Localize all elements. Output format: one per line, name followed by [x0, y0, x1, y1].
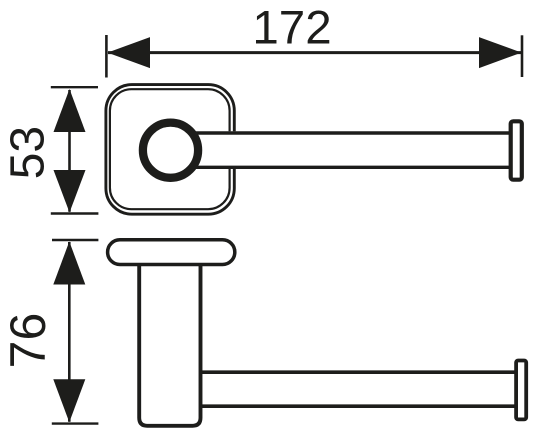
side view roll bar top edge	[201, 370, 517, 374]
front view roll bar top edge	[190, 131, 509, 134]
side view wall plate pill	[108, 240, 235, 265]
dimension 172 right arrowhead	[479, 37, 522, 68]
side view bar end cap	[516, 361, 526, 420]
dimension 172 left extension tick	[105, 35, 108, 78]
dimension 172 text	[252, 1, 331, 54]
side view roll bar bottom edge	[201, 404, 517, 408]
front view roll bar bottom edge	[190, 166, 509, 169]
dimension 53 line	[68, 90, 71, 212]
dimension 53 bottom extension tick	[51, 212, 99, 214]
front view roll bar body mask	[190, 131, 509, 169]
svg-text:53: 53	[2, 126, 55, 179]
front view wall plate outer outline	[106, 85, 234, 215]
dimension 76 top extension tick	[52, 239, 98, 241]
dimension 172 right extension tick	[521, 35, 524, 77]
svg-text:76: 76	[0, 313, 56, 369]
dimension 172 left arrowhead	[108, 37, 151, 68]
dimension 76 bottom extension tick	[52, 422, 99, 424]
dimension 53 top extension tick	[51, 86, 98, 88]
dimension 53 up arrowhead	[54, 89, 86, 132]
dimension 53 text	[2, 126, 55, 179]
front view post boss circle	[143, 123, 198, 178]
dimension 76 line	[68, 242, 71, 422]
front view bar end cap	[511, 121, 522, 179]
front view wall plate inner outline	[110, 89, 230, 209]
svg-text:172: 172	[252, 1, 331, 54]
dimension 76 up arrowhead	[53, 242, 85, 285]
dimension 172 line	[108, 51, 521, 54]
dimension 76 down arrowhead	[53, 379, 85, 422]
dimension 76 text	[0, 313, 56, 369]
dimension 53 down arrowhead	[54, 170, 86, 213]
side view post outline	[139, 264, 200, 426]
